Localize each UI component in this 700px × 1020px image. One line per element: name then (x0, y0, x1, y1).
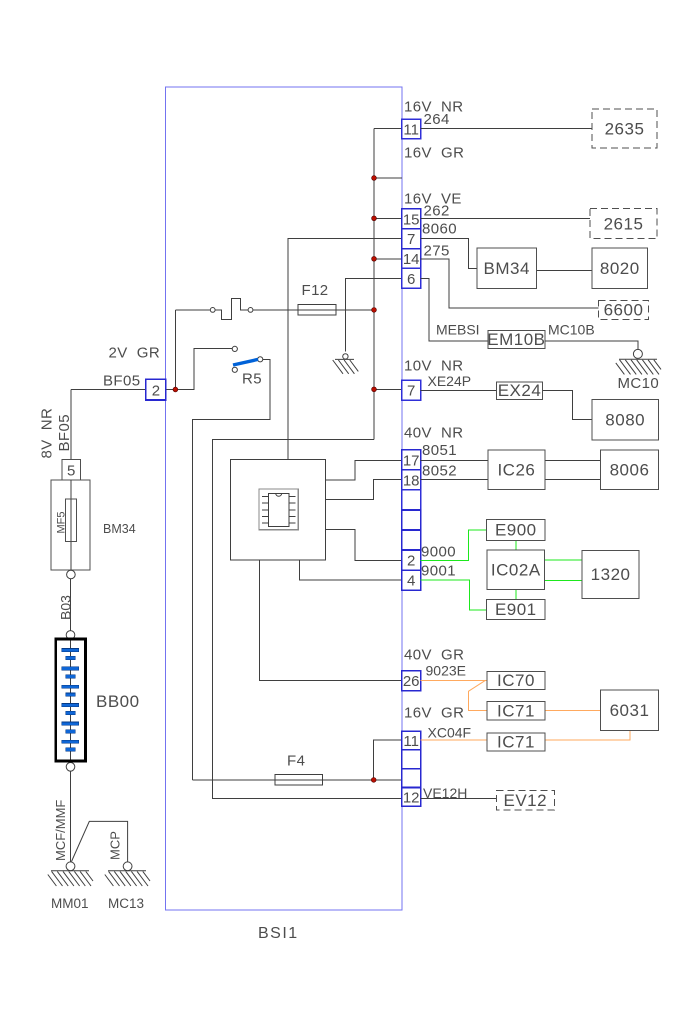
wire: pin 2 BF05 through junction to R5 (166, 349, 233, 390)
svg-text:8052: 8052 (422, 463, 457, 480)
svg-text:MEBSI: MEBSI (436, 322, 480, 338)
svg-text:275: 275 (424, 243, 450, 260)
wire: R5 output down to F4 (192, 359, 269, 780)
svg-text:F4: F4 (287, 753, 305, 770)
connector pin 14 (402, 249, 421, 269)
svg-text:BF05: BF05 (103, 373, 140, 390)
wire: BM34 to 8020 (536, 270, 592, 272)
box IC70 (487, 671, 545, 690)
svg-text:IC71: IC71 (497, 701, 535, 720)
svg-text:XE24P: XE24P (428, 373, 472, 389)
connector pin 12 (402, 788, 421, 807)
svg-text:BSI1: BSI1 (258, 925, 299, 942)
battery BB00 (56, 639, 86, 761)
connector pin 7 XE24P (402, 380, 421, 400)
wire orange: pin 26 to IC70 (421, 679, 487, 681)
wire: chip to pin 2 (326, 530, 402, 561)
wire green: IC02A to 1320 upper (545, 559, 583, 561)
box 2635 dashed (592, 109, 657, 148)
svg-text:BB00: BB00 (96, 692, 140, 711)
wire: BF05 to fuse box BM34 (71, 389, 146, 391)
box E901 (487, 600, 546, 620)
wire: chip to pin 17 (326, 460, 402, 480)
svg-text:8V NR: 8V NR (39, 408, 56, 459)
wire: F4 line (192, 779, 275, 781)
svg-text:40V GR: 40V GR (404, 647, 464, 664)
wire: EM10B to ground MC10 (545, 341, 638, 350)
svg-text:6031: 6031 (610, 701, 650, 720)
svg-text:BM34: BM34 (483, 259, 529, 278)
connector blank pins (402, 490, 421, 510)
svg-text:11: 11 (403, 733, 419, 750)
svg-text:EX24: EX24 (498, 381, 542, 400)
svg-text:7: 7 (407, 231, 415, 248)
svg-text:8060: 8060 (422, 221, 457, 238)
fuse F4 (275, 775, 322, 785)
wire: pin 7 to EX24 (421, 389, 497, 391)
wire orange: IC71 to 6031 (545, 710, 601, 712)
svg-text:15: 15 (403, 211, 420, 228)
wire: chip bottom to pin 26 (260, 560, 402, 681)
svg-text:2: 2 (407, 553, 415, 570)
svg-text:16V GR: 16V GR (404, 705, 464, 722)
box IC26 (488, 450, 545, 489)
box EM10B (487, 330, 545, 349)
svg-text:6: 6 (407, 271, 415, 288)
svg-text:6600: 6600 (604, 301, 644, 320)
svg-text:EM10B: EM10B (487, 330, 545, 349)
svg-text:MC10B: MC10B (548, 322, 595, 338)
box IC71 upper (487, 701, 545, 720)
ground internal near F12 (333, 354, 359, 374)
ground MC13 (105, 862, 150, 886)
svg-text:EV12: EV12 (504, 791, 548, 810)
svg-text:14: 14 (403, 251, 420, 268)
connector pin 15 (402, 209, 421, 229)
wire: pin 11 to 2635 (421, 128, 592, 130)
svg-text:2V GR: 2V GR (109, 345, 161, 362)
svg-text:BF05: BF05 (56, 414, 73, 451)
box 8020 (592, 248, 648, 289)
wire green: E900 to IC02A (515, 540, 517, 550)
connector pin 6 (402, 268, 421, 288)
wire: pin 15 stub (374, 217, 402, 219)
fuse F12 (298, 305, 336, 315)
svg-text:R5: R5 (242, 371, 262, 388)
ground MM01 (48, 862, 93, 886)
wire: XE24P pin 7 stub (374, 388, 402, 390)
svg-text:26: 26 (403, 673, 420, 690)
svg-text:E900: E900 (495, 521, 537, 540)
wire: bus end to pin 12 VE12H (213, 439, 402, 798)
svg-text:17: 17 (403, 452, 420, 469)
svg-text:8006: 8006 (610, 461, 650, 480)
wire orange: branch to IC71 (468, 680, 487, 710)
svg-text:IC02A: IC02A (491, 561, 541, 580)
wire: pin 14 to 6600 (421, 259, 599, 308)
wire: pin 15 to 2615 (421, 217, 590, 219)
wire: pin 7 to BM34 (421, 238, 477, 268)
box 8080 (592, 399, 658, 440)
wire: F12 feed segments (253, 309, 298, 311)
wire: pin 14 stub (374, 258, 402, 260)
svg-text:BM34: BM34 (103, 522, 136, 536)
wire: pin 6 to EM10B (421, 279, 488, 341)
wire: 16V GR stub (374, 177, 402, 179)
wire: pin 6 stub to internal ground (345, 279, 401, 352)
box 6031 (601, 690, 659, 731)
svg-text:9001: 9001 (421, 563, 456, 580)
connector pin 26 (402, 671, 421, 691)
svg-text:MF5: MF5 (56, 512, 68, 534)
svg-text:F12: F12 (302, 282, 329, 299)
wire orange: pin 11 to IC71 (421, 739, 487, 741)
connector blank pins bottom (402, 750, 421, 769)
svg-text:1320: 1320 (591, 565, 631, 584)
svg-text:E901: E901 (495, 600, 537, 619)
switch contact (thermal) top left (175, 299, 253, 320)
wire: 16V bus vertical inside BSI (373, 129, 375, 440)
switch R5 blue lever (233, 359, 258, 365)
box 8006 (601, 450, 659, 489)
fuse box BM34 left (51, 480, 90, 570)
wire: pin 11 stub to bus (374, 128, 402, 130)
box EV12 dashed (496, 791, 554, 810)
svg-text:XC04F: XC04F (428, 725, 472, 741)
wire: pin 7 8060 net to chip (288, 238, 402, 459)
svg-text:MM01: MM01 (51, 896, 89, 911)
svg-text:7: 7 (407, 383, 415, 400)
box IC02A (487, 550, 545, 589)
svg-text:MCP: MCP (107, 831, 122, 860)
svg-text:8080: 8080 (605, 411, 645, 430)
svg-text:MC10: MC10 (618, 375, 660, 392)
wire green 9001: pin 4 to E901 (421, 580, 487, 610)
junction dots (173, 176, 376, 783)
ground MC10 (616, 349, 661, 374)
connector pins 17,18 and blanks,2,4 (402, 450, 421, 470)
svg-text:5: 5 (67, 463, 75, 480)
svg-text:2635: 2635 (605, 120, 645, 139)
switch R5 contacts (232, 346, 263, 372)
svg-text:9000: 9000 (421, 544, 456, 561)
wire: branch to MC13 (72, 821, 128, 861)
svg-text:IC71: IC71 (497, 733, 535, 752)
wire orange: IC71 to 6031 bottom (545, 731, 630, 741)
wire green: IC02A to 1320 lower (545, 580, 583, 582)
svg-text:16V GR: 16V GR (404, 145, 464, 162)
wire: IC26 to 8006 upper (545, 459, 601, 461)
svg-text:11: 11 (403, 121, 419, 138)
IC chip symbol (259, 489, 298, 530)
wire: pin 18 to IC26 (421, 478, 488, 480)
wire: pin 17 to IC26 (421, 459, 488, 461)
svg-text:B03: B03 (58, 595, 74, 620)
connector pin 5 of BM34 (62, 460, 81, 481)
svg-text:8020: 8020 (600, 259, 640, 278)
box 1320 (582, 551, 639, 599)
BSI1 control unit outline (166, 87, 403, 910)
node: terminal circles (66, 570, 75, 771)
wire: vertical battery feed left (70, 390, 72, 571)
svg-text:10V NR: 10V NR (404, 358, 464, 375)
connector pin 4 (402, 570, 421, 590)
box IC71 lower (487, 733, 545, 752)
svg-text:262: 262 (424, 203, 450, 220)
svg-text:12: 12 (403, 789, 420, 806)
svg-text:MCF/MMF: MCF/MMF (53, 800, 68, 861)
connector pin 2 BF05 (146, 379, 166, 400)
wire: F4 riser to pin 11 XC04F (374, 740, 402, 780)
connector pin 11 top (402, 119, 421, 139)
connector pin 7 (402, 229, 421, 249)
svg-text:MC13: MC13 (108, 896, 144, 911)
svg-text:264: 264 (424, 111, 450, 128)
svg-text:9023E: 9023E (426, 663, 466, 679)
wire: pin 12 to EV12 (421, 798, 497, 800)
svg-text:IC26: IC26 (497, 461, 535, 480)
connector pin 2 (402, 550, 421, 570)
box 2615 dashed (590, 209, 657, 239)
connector pin 11 XC04F (402, 731, 421, 750)
wire: chip to pin 18 (326, 479, 402, 499)
svg-text:18: 18 (403, 472, 420, 489)
wire green 9000: pin 2 to E900 (421, 530, 487, 561)
svg-text:2615: 2615 (604, 215, 644, 234)
wire: EX24 to 8080 (543, 390, 592, 419)
svg-text:4: 4 (407, 573, 415, 590)
wire: switch down to BF05 junction (174, 310, 176, 390)
box BM34 (477, 248, 536, 289)
wire: chip bottom to pin 4 (299, 560, 401, 580)
wire green: IC02A to E901 (515, 590, 517, 600)
microcontroller housing box (231, 459, 326, 560)
box E900 (487, 520, 546, 541)
svg-text:8051: 8051 (422, 442, 457, 459)
svg-text:VE12H: VE12H (423, 785, 467, 801)
svg-text:IC70: IC70 (497, 671, 535, 690)
box EX24 (496, 381, 542, 400)
box 6600 dashed (598, 301, 648, 320)
fuse MF5 (56, 480, 77, 570)
wire: IC26 to 8006 lower (545, 478, 601, 480)
svg-text:2: 2 (152, 383, 160, 400)
svg-text:40V NR: 40V NR (404, 425, 464, 442)
